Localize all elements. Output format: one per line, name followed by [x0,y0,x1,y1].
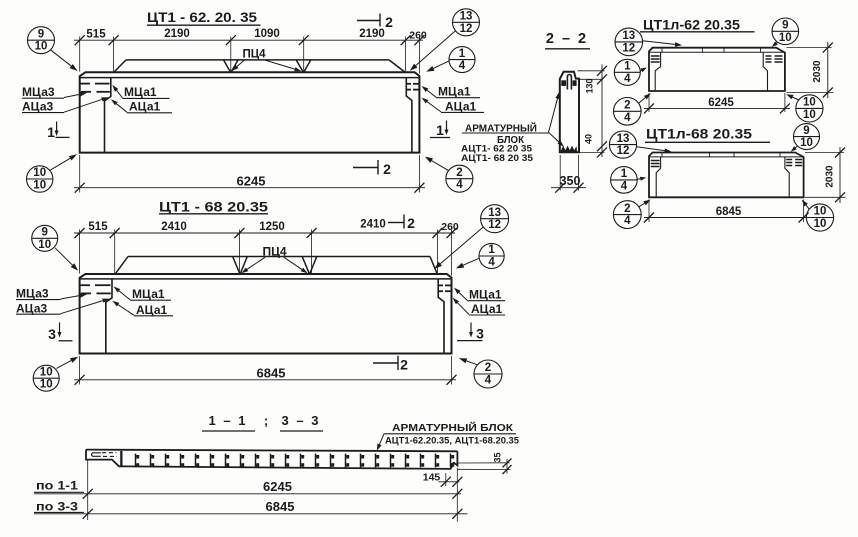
svg-text:10: 10 [814,218,827,230]
svg-text:13: 13 [622,30,635,42]
svg-text:10: 10 [779,32,792,44]
svg-text:2190: 2190 [359,28,385,40]
svg-text:9: 9 [803,125,809,137]
svg-text:10: 10 [814,206,827,218]
svg-text:3: 3 [476,326,484,342]
svg-text:2: 2 [485,362,491,374]
svg-text:АЦа1: АЦа1 [471,302,503,316]
svg-text:3: 3 [48,326,56,342]
svg-text:1: 1 [624,61,631,73]
svg-text:9: 9 [38,28,44,40]
svg-text:по 3-3: по 3-3 [36,500,78,514]
svg-text:2410: 2410 [360,218,386,230]
svg-text:12: 12 [617,145,630,157]
svg-text:9: 9 [782,20,788,32]
svg-text:12: 12 [460,23,473,35]
svg-text:4: 4 [488,257,495,269]
svg-text:2 – 2: 2 – 2 [546,31,588,47]
svg-text:10: 10 [33,180,46,192]
svg-text:ЦТ1 - 62. 20. 35: ЦТ1 - 62. 20. 35 [147,9,257,25]
svg-text:3 – 3: 3 – 3 [282,413,321,428]
svg-text:6845: 6845 [266,499,295,514]
svg-text:2: 2 [407,215,415,231]
svg-text:4: 4 [624,215,631,227]
svg-text:13: 13 [488,207,501,219]
svg-text:2: 2 [385,14,393,30]
svg-text:АЦа3: АЦа3 [22,100,54,114]
svg-text:2: 2 [456,167,462,179]
svg-text:ЦТ1 - 68 20.35: ЦТ1 - 68 20.35 [159,199,268,215]
svg-text:МЦа1: МЦа1 [438,85,471,99]
svg-text:АЦа1: АЦа1 [129,100,161,114]
svg-text:АЦТ1-62.20.35, АЦТ1-68.20.35: АЦТ1-62.20.35, АЦТ1-68.20.35 [385,436,519,446]
svg-text:1: 1 [621,168,628,180]
svg-text:АЦа3: АЦа3 [16,301,48,315]
svg-text:4: 4 [456,179,463,191]
svg-text:515: 515 [88,221,108,233]
svg-text:145: 145 [423,471,441,483]
svg-text:350: 350 [560,174,581,188]
svg-text:10: 10 [40,366,53,378]
svg-text:МЦа3: МЦа3 [16,287,49,301]
svg-text:ЦТ1л-68 20.35: ЦТ1л-68 20.35 [646,127,753,142]
svg-text:1250: 1250 [259,221,285,233]
svg-text:4: 4 [621,180,628,192]
svg-text:АРМАТУРНЫЙ БЛОК: АРМАТУРНЫЙ БЛОК [392,421,514,434]
svg-text:10: 10 [40,379,53,391]
svg-text:10: 10 [35,41,48,53]
svg-text:40: 40 [584,134,594,144]
svg-text:МЦа1: МЦа1 [124,85,157,99]
svg-text:6245: 6245 [263,479,292,494]
svg-text:2: 2 [383,161,391,177]
svg-text:13: 13 [460,11,473,23]
svg-text:2030: 2030 [812,60,823,83]
svg-text:АЦТ1- 68 20 35: АЦТ1- 68 20 35 [461,153,534,164]
svg-text:515: 515 [86,29,106,41]
svg-text:13: 13 [617,133,630,145]
svg-text:260: 260 [409,30,427,42]
svg-text:2030: 2030 [825,165,836,188]
svg-text:4: 4 [624,112,631,124]
svg-text:АЦа1: АЦа1 [136,303,168,317]
svg-text:1090: 1090 [254,28,280,40]
svg-text:6845: 6845 [257,366,286,381]
svg-text:12: 12 [488,219,501,231]
svg-text:6245: 6245 [237,174,266,189]
svg-text:ПЦ4: ПЦ4 [242,48,266,60]
svg-text:2: 2 [624,100,630,112]
svg-text:10: 10 [800,137,813,149]
svg-text:4: 4 [624,73,631,85]
svg-text:35: 35 [493,452,503,462]
svg-text:10: 10 [803,97,816,109]
svg-text:1: 1 [488,244,495,256]
svg-text:6845: 6845 [716,206,742,218]
svg-text:4: 4 [459,60,466,72]
svg-text:10: 10 [33,167,46,179]
svg-text:АЦа1: АЦа1 [445,100,477,114]
svg-text:130: 130 [585,78,595,93]
svg-text:12: 12 [622,42,635,54]
svg-text:260: 260 [441,221,459,233]
svg-text:1 – 1: 1 – 1 [209,413,248,428]
svg-text:6245: 6245 [708,97,734,109]
svg-text:МЦа1: МЦа1 [132,287,165,301]
svg-text:2410: 2410 [161,221,187,233]
svg-text:2: 2 [624,203,630,215]
svg-text:МЦа3: МЦа3 [22,85,55,99]
svg-text:2190: 2190 [164,28,190,40]
svg-text:МЦа1: МЦа1 [469,288,502,302]
svg-text:1: 1 [436,122,444,138]
svg-text:2: 2 [400,357,408,373]
svg-text:4: 4 [485,375,492,387]
svg-text:10: 10 [38,239,51,251]
svg-text:1: 1 [47,124,55,140]
svg-text:9: 9 [41,227,47,239]
svg-text:;: ; [264,413,268,428]
svg-text:10: 10 [803,109,816,121]
svg-text:по 1-1: по 1-1 [36,479,78,493]
svg-text:ЦТ1л-62 20.35: ЦТ1л-62 20.35 [643,18,741,33]
svg-text:1: 1 [459,48,466,60]
